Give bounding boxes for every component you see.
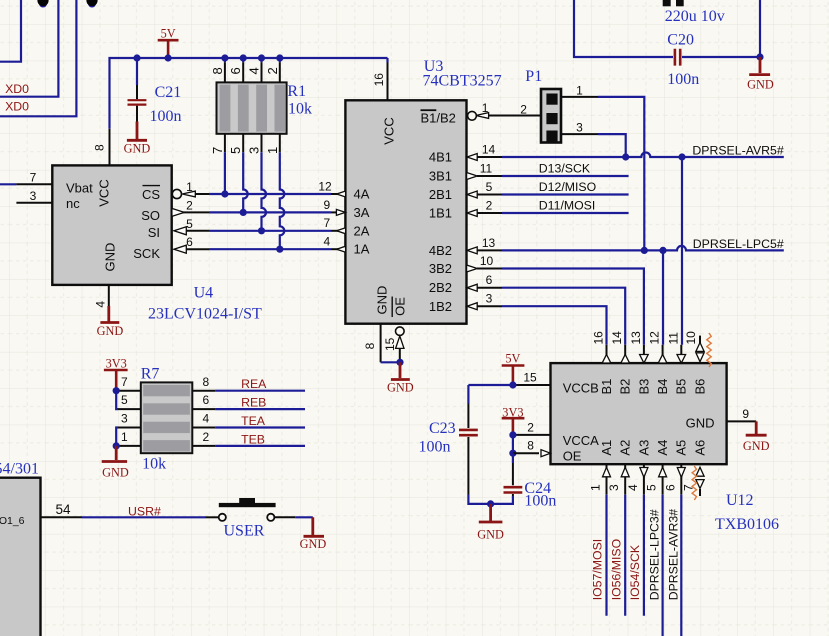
svg-text:1A: 1A [354, 242, 370, 257]
R7 pin 8 + net REA [192, 375, 215, 391]
svg-text:2: 2 [527, 420, 534, 434]
wire net D12/MISO [502, 193, 629, 195]
wire net D13/SCK [502, 175, 629, 177]
U3 pin 3 (1B2) [467, 292, 502, 310]
junction bottom rail GND [487, 500, 494, 507]
svg-text:4: 4 [324, 235, 331, 249]
junction SO row [240, 209, 247, 216]
svg-text:USER: USER [224, 522, 265, 539]
wire CS row U4 to U3 [209, 193, 331, 195]
ground GND (C23/C24) [477, 504, 504, 542]
U3 pin names group B1 side [429, 150, 452, 315]
svg-text:XD0: XD0 [5, 82, 29, 96]
junction OE [509, 450, 516, 457]
wire net RXD0 top-left [0, 0, 58, 97]
U12 pin 14 (B2 top) [610, 331, 629, 363]
U3 pin 1 (B1/B2 select) bubble+arrow+wire to P1 pin 2 [468, 101, 541, 120]
P1 pin 3 [561, 121, 598, 135]
junction CS row [221, 190, 228, 197]
svg-text:B1: B1 [599, 379, 614, 395]
U12 pin 4 (A3 bottom) [626, 464, 648, 495]
resistor network R1 [217, 82, 313, 133]
IC (left edge, partial) body [0, 478, 41, 636]
svg-text:14: 14 [482, 143, 496, 157]
svg-text:D11/MOSI: D11/MOSI [539, 198, 596, 212]
svg-text:REA: REA [241, 377, 267, 391]
U3 pin 5 (2B1) [467, 180, 502, 198]
pushbutton USER [206, 498, 296, 539]
wire U3 pin8 to pin15 [381, 361, 400, 363]
svg-text:100n: 100n [419, 439, 451, 456]
svg-text:SI: SI [148, 225, 160, 240]
svg-text:6: 6 [486, 273, 493, 287]
U12 pin 3 (A2 bottom) [607, 464, 629, 495]
R1 pin 3 [247, 134, 262, 154]
U12 pin 15 (VCCB left) [515, 371, 551, 386]
capacitor C21 [128, 58, 182, 125]
svg-text:15: 15 [523, 371, 537, 385]
svg-text:GND: GND [477, 528, 504, 542]
wire SI row U4 to U3 [209, 230, 331, 232]
wire net IO54/SCK [643, 495, 645, 616]
wire net to U4 pin 7 [0, 183, 16, 185]
svg-text:8: 8 [527, 439, 534, 453]
junction LPC5 row / B4 drop [659, 247, 666, 254]
R1 pin 1 [265, 134, 280, 154]
svg-text:3: 3 [607, 484, 621, 491]
svg-text:100n: 100n [524, 493, 556, 510]
svg-text:1B1: 1B1 [429, 206, 452, 221]
svg-text:11: 11 [666, 332, 680, 345]
U12 pin 10 (B6 top, unconnected) [684, 331, 704, 362]
svg-text:2: 2 [186, 198, 193, 212]
svg-text:1: 1 [576, 83, 583, 97]
wire net TEA [215, 426, 305, 428]
wire net DPRSEL-AVR5# row (hop at P1 line) [502, 153, 784, 158]
svg-text:10k: 10k [142, 456, 166, 473]
IC U4 body [52, 165, 171, 285]
svg-text:7: 7 [324, 216, 331, 230]
wire R1 pin3 to SI row (hops) [262, 152, 267, 231]
P1 pin 1 [561, 83, 598, 97]
U12 pin names A1-A6 (rotated) [599, 440, 708, 456]
U3 pin 8 (GND bottom) [363, 324, 381, 363]
svg-text:A3: A3 [636, 440, 651, 456]
wire AVR5 row down to U12 B5 [681, 157, 683, 345]
R7 pin 2 + net TEB [192, 430, 215, 446]
svg-text:D13/SCK: D13/SCK [539, 161, 591, 175]
wire net D11/MOSI [502, 212, 629, 214]
U3 pin name OE (rotated, overline) [392, 297, 407, 318]
junction 5V/VCCB [509, 381, 516, 388]
svg-text:5V: 5V [161, 26, 176, 40]
junction 5V rail / 5V stem [165, 54, 172, 61]
svg-text:REB: REB [241, 396, 266, 410]
U3 pin 12 (4A) [318, 179, 345, 197]
wire C20 right to GND drop [682, 0, 760, 57]
svg-text:1: 1 [121, 430, 128, 444]
junction LPC5 row / P1 pin1 [641, 247, 648, 254]
svg-text:C20: C20 [667, 32, 694, 49]
wire R1 pin5 to SO row (hop over CS row) [243, 152, 248, 212]
R7 pin 3 [118, 412, 141, 428]
svg-text:2B1: 2B1 [429, 187, 452, 202]
svg-text:74CBT3257: 74CBT3257 [423, 73, 502, 90]
power 3V3 (U12) [502, 405, 525, 435]
ground GND (U12 pin 9) [743, 421, 770, 453]
svg-text:C21: C21 [155, 84, 182, 101]
U4 pin 3 (nc) [16, 189, 52, 203]
R7 pin 6 + net REB [192, 393, 215, 409]
svg-text:XD0: XD0 [5, 100, 29, 114]
svg-text:2: 2 [520, 103, 527, 117]
svg-text:GND: GND [102, 466, 129, 480]
wire VCCA to OE [512, 435, 514, 453]
no-ERC marker B6 [707, 333, 711, 367]
svg-text:3V3: 3V3 [106, 356, 127, 370]
R1 pin 2 [265, 58, 280, 82]
wire net REB [215, 408, 305, 410]
svg-text:USR#: USR# [128, 504, 161, 518]
electrolytic capacitor stubs (top edge) [663, 0, 725, 25]
svg-text:6: 6 [663, 484, 677, 491]
svg-text:1: 1 [265, 147, 280, 154]
svg-text:GND: GND [300, 537, 327, 551]
svg-text:VCC: VCC [97, 179, 112, 206]
svg-text:1: 1 [589, 484, 603, 491]
U12 pin 12 (B4 top) [648, 331, 667, 363]
svg-text:15: 15 [383, 337, 397, 351]
svg-text:1: 1 [482, 101, 489, 115]
U12 pin names B1-B6 (rotated) [599, 379, 708, 395]
svg-text:3B1: 3B1 [429, 169, 452, 184]
svg-text:R7: R7 [141, 366, 160, 383]
svg-text:DPRSEL-LPC5#: DPRSEL-LPC5# [693, 237, 784, 251]
svg-text:B1/B2: B1/B2 [421, 111, 456, 126]
svg-text:6: 6 [203, 393, 210, 407]
R1 pin 5 [228, 134, 243, 154]
R7 pin 5 [118, 393, 141, 409]
U4 pin 1 (CS) bubble+arrow [172, 180, 209, 199]
U4 pin 8 (VCC top) [93, 129, 110, 166]
wire R7 pin3 to pin1 [116, 428, 118, 446]
U12 pin 1 (A1 bottom) [589, 464, 611, 495]
U3 pin 14 (4B1) [467, 143, 502, 161]
junction 5V rail / C21 [133, 54, 140, 61]
svg-text:TXB0106: TXB0106 [715, 516, 779, 533]
svg-text:1: 1 [186, 180, 193, 194]
svg-text:8: 8 [363, 342, 377, 349]
svg-text:5: 5 [486, 180, 493, 194]
U12 pin 2 (VCCA left) [513, 420, 551, 435]
svg-text:GND: GND [375, 286, 390, 315]
wire R7 pin7 to pin5 [116, 391, 118, 409]
svg-text:A1: A1 [599, 440, 614, 456]
svg-text:4: 4 [247, 67, 262, 74]
U3 pin 11 (3B1) [467, 162, 502, 180]
ground GND (C20) [747, 57, 774, 92]
svg-text:B2: B2 [618, 379, 633, 395]
svg-text:B6: B6 [692, 379, 707, 395]
junction SCK row [276, 246, 283, 253]
connector pad 1 [37, 0, 48, 8]
junction AVR5 row / B5 drop [678, 153, 685, 160]
wire net IO57/MOSI [605, 495, 607, 616]
svg-text:A4: A4 [655, 440, 670, 456]
U3 pin 4 (1A) [324, 235, 346, 253]
power 3V3 (R7) [104, 356, 128, 390]
svg-text:16: 16 [592, 331, 606, 345]
wire SCK row U4 to U3 [209, 248, 331, 250]
power 5V (top rail) [158, 26, 179, 58]
wire net IO56/MISO [624, 495, 626, 616]
wire net TXD0 top-left [0, 0, 21, 62]
svg-text:OE: OE [393, 297, 408, 316]
svg-text:OE: OE [563, 449, 582, 464]
wire LPC5 row down to U12 B4 [662, 250, 664, 344]
U3 pin 6 (2B2) [467, 273, 502, 291]
wire 3B2 to U12 B3 [502, 269, 644, 345]
svg-text:VCC: VCC [381, 117, 396, 144]
svg-text:7: 7 [30, 171, 37, 185]
svg-text:SCK: SCK [133, 246, 160, 261]
wire net REA [215, 390, 305, 392]
svg-text:6: 6 [228, 67, 243, 74]
ground GND (C21) [124, 122, 151, 156]
svg-text:10: 10 [684, 331, 698, 345]
junction R7 pin7 / 3V3 [113, 387, 120, 394]
svg-text:GND: GND [103, 243, 118, 272]
svg-text:R1: R1 [287, 83, 306, 100]
wire SO row U4 to U3 [209, 211, 331, 213]
junction U3 GND [396, 359, 403, 366]
junction 3V3/VCCA [509, 431, 516, 438]
wire 5V rail [110, 58, 388, 129]
junction AVR5 row / P1 pin3 [622, 153, 629, 160]
svg-text:VCCA: VCCA [563, 433, 599, 448]
U4 pin 4 (GND bottom) [94, 285, 109, 308]
svg-text:5: 5 [121, 393, 128, 407]
R7 pin 1 [118, 430, 141, 446]
svg-text:3B2: 3B2 [429, 261, 452, 276]
svg-text:4: 4 [626, 484, 640, 491]
svg-text:3: 3 [30, 189, 37, 203]
U12 pin 8 (OE left) arrow [513, 439, 551, 457]
wire net TEB [215, 445, 305, 447]
svg-text:B3: B3 [636, 379, 651, 395]
wire C23/C24 bottom rail [468, 495, 513, 504]
junction 5V rail / R1 pin2 [276, 54, 283, 61]
junction 5V rail / R1 pin4 [258, 54, 265, 61]
svg-text:GND: GND [387, 380, 414, 394]
svg-text:3: 3 [247, 147, 262, 154]
U3 pin 16 (VCC top) [372, 58, 388, 100]
svg-text:5V: 5V [505, 352, 520, 366]
IC U12 body [551, 363, 727, 464]
svg-text:P1: P1 [525, 68, 542, 85]
svg-text:3: 3 [576, 121, 583, 135]
svg-text:4A: 4A [354, 187, 370, 202]
U12 pin 13 (B3 top) [629, 331, 648, 363]
ground GND (USER) [300, 517, 327, 551]
wire 5V junction to VCCB [468, 384, 514, 386]
svg-text:6: 6 [186, 235, 193, 249]
svg-text:A2: A2 [618, 440, 633, 456]
svg-text:TEA: TEA [241, 414, 266, 428]
U4 pin 5 (SI) arrow [174, 217, 209, 235]
svg-text:10k: 10k [288, 101, 312, 118]
svg-text:1B2: 1B2 [429, 299, 452, 314]
wire P1 pin3 to DPRSEL-AVR5# row [598, 134, 626, 157]
U4 pin name CS (with overline) [142, 186, 160, 202]
ground GND (U4 pin 4) [97, 306, 124, 338]
svg-text:3: 3 [121, 412, 128, 426]
resistor network R7 [141, 366, 193, 473]
wire 2B2 to U12 B2 [502, 288, 625, 345]
svg-text:TEB: TEB [241, 432, 265, 446]
svg-text:7: 7 [121, 375, 128, 389]
svg-text:4: 4 [203, 412, 210, 426]
svg-text:5: 5 [645, 484, 659, 491]
U12 pin 16 (B1 top) [592, 331, 611, 363]
svg-text:D12/MISO: D12/MISO [539, 180, 596, 194]
junction 5V rail / R1 pin6 [240, 54, 247, 61]
svg-text:2: 2 [486, 199, 493, 213]
svg-text:220u 10v: 220u 10v [665, 8, 725, 25]
U12 pin 5 (A4 bottom) [645, 464, 667, 495]
wire net DPRSEL-LPC5# row (hop at AVR5 line) [502, 246, 784, 251]
R7 pin 4 + net TEA [192, 412, 215, 428]
svg-text:4B2: 4B2 [429, 243, 452, 258]
svg-text:54/301: 54/301 [0, 461, 39, 478]
svg-text:IO57/MOSI: IO57/MOSI [591, 539, 605, 601]
wire third top-left [0, 0, 76, 116]
U3 pin 7 (2A) [324, 216, 346, 234]
wire USER to GND [295, 516, 313, 518]
svg-text:23LCV1024-I/ST: 23LCV1024-I/ST [148, 306, 262, 323]
svg-text:U4: U4 [194, 285, 214, 302]
svg-text:7: 7 [210, 147, 225, 154]
U3 pin 15 (OE bottom) bubble+arrow [383, 327, 404, 362]
svg-text:IO56/MISO: IO56/MISO [609, 539, 623, 601]
power 5V (U12) [502, 352, 525, 385]
svg-text:DPRSEL-LPC3#: DPRSEL-LPC3# [648, 509, 662, 600]
U4 pin 7 (Vbat) [16, 171, 52, 185]
svg-text:SO: SO [141, 208, 160, 223]
svg-text:13: 13 [482, 236, 496, 250]
svg-text:4: 4 [94, 301, 108, 308]
U3 pin 10 (3B2) [467, 254, 502, 272]
svg-text:12: 12 [648, 331, 662, 345]
svg-text:IO54/SCK: IO54/SCK [628, 544, 642, 600]
connector P1 body [525, 68, 561, 143]
svg-text:GND: GND [124, 142, 151, 156]
R1 pin 8 [210, 58, 225, 82]
svg-text:3: 3 [486, 292, 493, 306]
wire P1 pin1 to DPRSEL-LPC5# row [598, 97, 644, 251]
U4 pin 2 (SO) arrow [172, 198, 209, 216]
capacitor C23 [419, 385, 478, 495]
svg-text:VCCB: VCCB [563, 381, 599, 396]
svg-text:4B1: 4B1 [429, 150, 452, 165]
capacitor C20 [667, 32, 699, 88]
wire net USR# [82, 516, 206, 518]
svg-text:Vbat: Vbat [66, 180, 93, 195]
svg-text:14: 14 [610, 331, 624, 345]
capacitor C24 [504, 453, 557, 509]
svg-text:B4: B4 [655, 379, 670, 395]
no-ERC marker A6 [692, 466, 696, 500]
svg-text:100n: 100n [150, 108, 182, 125]
svg-text:U12: U12 [726, 492, 754, 509]
svg-text:DPRSEL-AVR5#: DPRSEL-AVR5# [692, 144, 784, 158]
svg-text:2A: 2A [354, 223, 370, 238]
svg-text:DPRSEL-AVR3#: DPRSEL-AVR3# [666, 509, 680, 601]
svg-text:8: 8 [203, 375, 210, 389]
svg-text:A5: A5 [674, 440, 689, 456]
left IC pin 54 [41, 502, 83, 517]
junction SI row [258, 227, 265, 234]
svg-text:100n: 100n [667, 71, 699, 88]
U12 pin 9 (GND right) [727, 407, 757, 422]
svg-text:13: 13 [629, 331, 643, 345]
svg-text:GND: GND [686, 415, 715, 430]
wire R1 pin7 to CS row [224, 152, 226, 194]
U12 pin 7 (A6 bottom, unconnected) [682, 467, 705, 496]
wire 5V to C20 left [574, 0, 673, 57]
svg-text:5: 5 [186, 217, 193, 231]
svg-text:3A: 3A [354, 205, 370, 220]
wire R1 pin1 to SCK row (hops) [280, 152, 285, 249]
U4 pin 6 (SCK) arrow [174, 235, 209, 253]
junction C20/GND [756, 53, 763, 60]
svg-text:9: 9 [742, 407, 749, 421]
svg-text:A6: A6 [692, 440, 707, 456]
svg-text:54: 54 [55, 502, 71, 517]
svg-text:2: 2 [265, 67, 280, 74]
wire net DPRSEL-AVR3# [680, 495, 682, 636]
R1 pin 7 [210, 134, 225, 154]
svg-text:8: 8 [210, 67, 225, 74]
connector pad 2 [86, 0, 97, 8]
junction R7 pin1 / GND [113, 442, 120, 449]
svg-text:9: 9 [324, 198, 331, 212]
svg-text:GND: GND [97, 324, 124, 338]
U3 pin 9 (3A) [324, 198, 346, 216]
U12 pin 6 (A5 bottom) [663, 464, 685, 495]
U3 pin name B1/B2 (overline on B1) [421, 110, 456, 125]
svg-text:C23: C23 [429, 420, 456, 437]
R7 pin 7 [118, 375, 141, 391]
ground GND (U3) [387, 362, 414, 394]
svg-text:nc: nc [66, 196, 80, 211]
svg-text:CS: CS [142, 187, 160, 202]
svg-text:O1_6: O1_6 [0, 515, 25, 527]
U3 pin 2 (1B1) [467, 199, 502, 217]
R1 pin 4 [247, 58, 262, 82]
svg-text:16: 16 [372, 73, 386, 87]
IC U3 body [345, 100, 466, 323]
U12 pin 11 (B5 top) [666, 332, 685, 363]
ground GND (R7) [102, 446, 129, 480]
wire 1B2 to U12 B1 [502, 306, 607, 345]
U3 pin names group A side [354, 187, 370, 257]
svg-text:2: 2 [203, 430, 210, 444]
svg-text:GND: GND [747, 78, 774, 92]
svg-text:2B2: 2B2 [429, 280, 452, 295]
svg-text:10: 10 [480, 254, 494, 268]
U3 pin 13 (4B2) [467, 236, 502, 254]
